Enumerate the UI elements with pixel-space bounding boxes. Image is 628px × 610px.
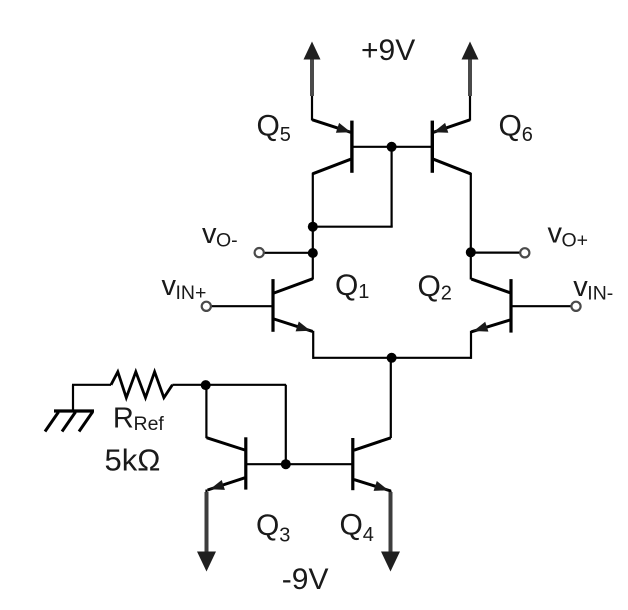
node vO- tap xyxy=(308,248,318,258)
wire Q2 emitter down xyxy=(470,331,472,359)
resistor RRef xyxy=(111,372,172,398)
transistor Q3 xyxy=(244,437,247,489)
node vO+ tap xyxy=(466,247,476,257)
svg-text:2: 2 xyxy=(441,283,452,305)
svg-text:3: 3 xyxy=(279,525,290,547)
transistor Q1 xyxy=(271,279,274,332)
svg-text:v: v xyxy=(548,218,563,250)
wire Q5 collector rail xyxy=(312,173,314,280)
transistor Q5 xyxy=(350,121,353,173)
wire base tie down xyxy=(391,147,393,227)
svg-text:R: R xyxy=(113,403,134,435)
svg-text:v: v xyxy=(162,270,177,302)
terminal vIN- xyxy=(571,302,580,311)
wire Q5 base to Q6 base xyxy=(353,146,431,148)
node mirror bases xyxy=(387,142,397,152)
terminal vO+ xyxy=(520,248,529,257)
svg-text:v: v xyxy=(202,218,217,250)
svg-text:6: 6 xyxy=(522,124,533,146)
power arrow to -9V (right) xyxy=(389,491,391,501)
svg-text:Q: Q xyxy=(499,110,522,143)
svg-text:IN+: IN+ xyxy=(176,282,207,304)
svg-text:Ref: Ref xyxy=(134,413,165,435)
ground xyxy=(54,409,94,412)
node mirror base tie xyxy=(281,459,291,469)
wire ref tie down xyxy=(285,385,287,465)
wire ground to resistor xyxy=(72,384,111,386)
svg-text:5: 5 xyxy=(280,124,291,146)
transistor Q6 xyxy=(431,121,434,173)
wire base tie across xyxy=(313,226,393,228)
wire tail bus xyxy=(313,357,471,359)
svg-text:+9V: +9V xyxy=(361,34,415,67)
wire Q6 collector rail xyxy=(470,173,472,280)
svg-text:4: 4 xyxy=(363,524,374,546)
wire Q2 base xyxy=(512,305,571,307)
svg-text:Q: Q xyxy=(335,269,358,302)
transistor Q2 xyxy=(509,279,512,333)
svg-text:Q: Q xyxy=(256,509,279,542)
wire vO+ stub xyxy=(471,252,521,254)
terminal vO- xyxy=(255,248,264,257)
node tail xyxy=(387,353,397,363)
transistor Q4 xyxy=(351,438,354,490)
svg-text:Q: Q xyxy=(418,270,441,303)
wire Q1 base xyxy=(211,305,272,307)
node RRef / Q3 collector xyxy=(201,380,211,390)
wire resistor to tie xyxy=(172,384,286,386)
wire Q3 collector up xyxy=(205,385,207,438)
svg-text:-9V: -9V xyxy=(282,563,329,596)
svg-text:O-: O- xyxy=(216,230,238,252)
svg-text:v: v xyxy=(573,271,588,303)
terminal vIN+ xyxy=(202,302,211,311)
node Q5 collector / tie xyxy=(308,222,318,232)
power arrow to +9V (right) xyxy=(469,94,471,121)
wire Q3 base to Q4 base xyxy=(247,463,352,465)
svg-text:1: 1 xyxy=(358,281,369,303)
svg-text:Q: Q xyxy=(340,509,363,542)
wire tail to Q4 collector xyxy=(390,358,392,438)
svg-text:O+: O+ xyxy=(562,230,589,252)
svg-text:Q: Q xyxy=(257,110,280,143)
power arrow to +9V (left) xyxy=(311,94,313,121)
power arrow to -9V (left) xyxy=(205,490,207,501)
svg-text:5kΩ: 5kΩ xyxy=(105,443,161,478)
wire ground up xyxy=(72,385,74,411)
wire Q1 emitter down xyxy=(312,331,314,359)
svg-text:IN-: IN- xyxy=(587,283,613,305)
wire vO- stub xyxy=(263,252,313,254)
